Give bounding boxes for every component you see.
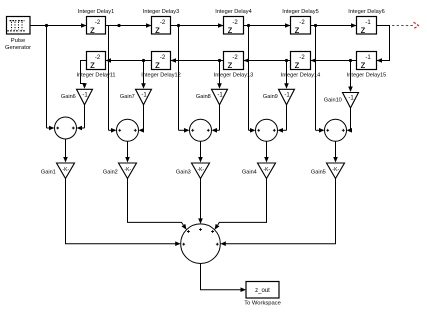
wire Integer Delay15 output to Integer Delay14 input	[311, 58, 357, 63]
gain block Gain7 (-1)	[120, 89, 152, 105]
gain block Gain1 (-K-)	[41, 163, 75, 179]
svg-text:-2: -2	[95, 55, 101, 61]
junction branch to Sum5 on top wire	[314, 24, 317, 27]
junction branch to Gain6 on second-row wire	[142, 59, 145, 62]
delay block Integer Delay13 (z^-2)	[214, 52, 254, 79]
svg-text:-1: -1	[348, 96, 354, 102]
wire second-row branch into Gain7	[217, 61, 222, 89]
svg-text:-2: -2	[160, 55, 166, 61]
svg-text:z: z	[155, 25, 160, 36]
svg-text:-1: -1	[365, 20, 371, 26]
svg-text:-K-: -K-	[62, 167, 69, 173]
wire Sum5 output into Gain5	[333, 141, 338, 162]
wire top-wire drop into Sum1 left input	[47, 26, 55, 131]
wire second-row branch into Gain9	[348, 61, 353, 93]
wire Sum output to To Workspace	[201, 264, 247, 293]
svg-text:-1: -1	[82, 93, 88, 99]
svg-text:Gain1: Gain1	[41, 170, 56, 176]
svg-text:z: z	[228, 25, 233, 36]
wire Sum4 output into Gain4	[264, 141, 269, 162]
sum block Sum4	[256, 119, 278, 141]
sum block Sum3	[190, 119, 212, 141]
wire Integer Delay3 output to Integer Delay4 input	[171, 23, 224, 28]
junction branch to Sum1 on top wire	[45, 24, 48, 27]
sum block Sum1	[55, 117, 77, 139]
delay block Integer Delay14 (z^-2)	[281, 52, 321, 79]
svg-text:Gain6: Gain6	[61, 94, 76, 100]
svg-text:Generator: Generator	[5, 45, 31, 51]
svg-text:-2: -2	[95, 20, 101, 26]
svg-text:-1: -1	[217, 93, 223, 99]
svg-text:-K-: -K-	[197, 167, 204, 173]
svg-text:-1: -1	[365, 55, 371, 61]
delay block Integer Delay5 (z^-2)	[282, 9, 318, 36]
wire Integer Delay11 output to Gain6	[81, 61, 87, 89]
svg-text:To Workspace: To Workspace	[244, 301, 281, 307]
svg-text:z: z	[295, 60, 300, 71]
gain block Gain2 (-K-)	[103, 163, 137, 179]
wire Gain9 output into Sum4 right input	[278, 105, 287, 133]
wire Gain3 output into Sum top input	[198, 179, 203, 224]
svg-text:Gain10: Gain10	[324, 97, 342, 103]
svg-text:Integer Delay3: Integer Delay3	[143, 9, 179, 15]
svg-text:-2: -2	[160, 20, 166, 26]
junction branch to Gain9 on second-row wire	[349, 59, 352, 62]
sum block Sum5	[325, 119, 347, 141]
wire top-wire drop into Sum3 left input	[179, 26, 190, 133]
wire Gain5 output into Sum right input	[220, 179, 335, 247]
wire Sum3 output into Gain3	[198, 141, 203, 162]
junction branch to Sum4 on top wire	[247, 24, 250, 27]
gain block Gain10 (-1)	[324, 93, 359, 108]
svg-text:-1: -1	[284, 93, 290, 99]
delay block Integer Delay1 (z^-2)	[78, 9, 114, 36]
svg-text:-K-: -K-	[124, 167, 131, 173]
junction branch to Gain7 on second-row wire	[218, 59, 221, 62]
wire top-wire drop into Sum5 left input	[316, 26, 325, 133]
wire Integer Delay6 output down to Integer Delay15 input	[377, 26, 390, 63]
delay block Integer Delay6 (z^-1)	[348, 9, 384, 36]
svg-text:Gain8: Gain8	[196, 94, 211, 100]
svg-text:Integer Delay6: Integer Delay6	[348, 9, 384, 15]
svg-text:z: z	[361, 25, 366, 36]
wire Sum2 output into Gain2	[125, 141, 130, 162]
svg-text:z: z	[228, 60, 233, 71]
svg-text:Integer Delay5: Integer Delay5	[282, 9, 318, 15]
svg-text:z: z	[90, 60, 95, 71]
wire Integer Delay4 output to Integer Delay5 input	[244, 23, 291, 28]
svg-text:Gain4: Gain4	[242, 170, 257, 176]
wire Gain7 output into Sum2 right input	[139, 105, 145, 133]
svg-text:Integer Delay15: Integer Delay15	[347, 73, 387, 79]
svg-text:Integer Delay1: Integer Delay1	[78, 9, 114, 15]
red dashed unconnected signal line	[392, 22, 419, 29]
wire Integer Delay13 output to Integer Delay12 input	[171, 58, 224, 63]
gain block Gain6 (-1)	[61, 89, 93, 105]
junction branch dot after Integer Delay1 on top wire	[117, 24, 120, 27]
wire second-row branch into Gain6	[141, 61, 146, 89]
wire Gain2 output into Sum upper-left input	[128, 179, 187, 230]
svg-text:Integer Delay4: Integer Delay4	[215, 9, 251, 15]
svg-text:-1: -1	[141, 93, 147, 99]
wire Pulse Generator output to Integer Delay1	[30, 23, 87, 28]
svg-text:Gain9: Gain9	[263, 94, 278, 100]
gain block Gain4 (-K-)	[242, 163, 276, 179]
wire Integer Delay14 output to Integer Delay13 input	[244, 58, 291, 63]
sum block Sum2	[117, 119, 139, 141]
delay block Integer Delay12 (z^-2)	[141, 52, 181, 79]
wire top-wire drop into Sum2 left input	[109, 26, 117, 133]
svg-text:-2: -2	[299, 55, 305, 61]
svg-text:-2: -2	[232, 20, 238, 26]
wire Gain6 output into Sum1 right input	[77, 105, 85, 131]
svg-text:Pulse: Pulse	[11, 38, 26, 44]
wire Gain8 output into Sum3 right input	[212, 105, 220, 133]
svg-text:Gain5: Gain5	[311, 170, 326, 176]
wire Sum1 output into Gain1	[63, 139, 68, 163]
gain block Gain5 (-K-)	[311, 163, 345, 179]
wire Gain4 output into Sum upper-right input	[215, 179, 267, 230]
delay block Integer Delay4 (z^-2)	[215, 9, 251, 36]
wire top-wire drop into Sum4 left input	[249, 26, 256, 133]
svg-text:z_out: z_out	[255, 288, 270, 294]
svg-text:Gain7: Gain7	[120, 94, 135, 100]
delay block Integer Delay11 (z^-2)	[76, 52, 115, 79]
source block Pulse Generator	[5, 17, 31, 51]
wire Integer Delay5 output to Integer Delay6 input	[311, 23, 357, 28]
svg-text:Integer Delay11: Integer Delay11	[76, 73, 115, 79]
svg-text:z: z	[155, 60, 160, 71]
gain block Gain9 (-1)	[263, 89, 295, 105]
junction branch to Gain8 on second-row wire	[285, 59, 288, 62]
svg-text:-K-: -K-	[263, 167, 270, 173]
svg-text:z: z	[90, 25, 95, 36]
svg-text:Gain3: Gain3	[176, 170, 191, 176]
gain block Gain3 (-K-)	[176, 163, 210, 179]
wire Gain1 output into Sum left input	[66, 179, 181, 247]
wire Integer Delay12 output to Integer Delay11 input	[106, 58, 152, 63]
sink block To Workspace (z_out)	[244, 282, 281, 307]
wire Gain10 output into Sum5 right input	[347, 108, 353, 133]
svg-text:-K-: -K-	[332, 167, 339, 173]
svg-text:-2: -2	[299, 20, 305, 26]
wire Integer Delay1 output to Integer Delay3 input	[106, 23, 152, 28]
sum block Sum (5-input)	[181, 224, 221, 264]
delay block Integer Delay3 (z^-2)	[143, 9, 179, 36]
svg-text:z: z	[295, 25, 300, 36]
svg-text:Gain2: Gain2	[103, 170, 118, 176]
gain block Gain8 (-1)	[196, 89, 228, 105]
wire second-row branch into Gain8	[284, 61, 289, 89]
svg-text:Integer Delay12: Integer Delay12	[141, 73, 181, 79]
svg-text:z: z	[361, 60, 366, 71]
svg-text:-2: -2	[232, 55, 238, 61]
delay block Integer Delay15 (z^-1)	[347, 52, 387, 79]
junction branch to Sum3 on top wire	[177, 24, 180, 27]
